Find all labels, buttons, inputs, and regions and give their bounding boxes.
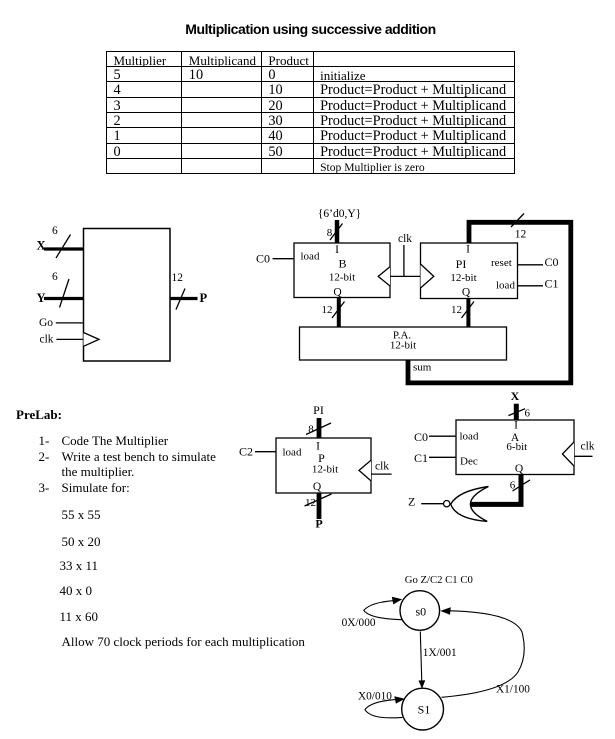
clock wedge B bbox=[378, 267, 390, 286]
svg-text:PI: PI bbox=[456, 257, 467, 271]
node Go Z/C2 C1 C0 label bbox=[405, 574, 473, 586]
svg-text:X0/010: X0/010 bbox=[358, 690, 392, 702]
svg-text:6: 6 bbox=[52, 225, 58, 237]
svg-text:C0: C0 bbox=[414, 430, 428, 444]
svg-text:load: load bbox=[460, 431, 479, 443]
svg-text:12-bit: 12-bit bbox=[450, 272, 476, 284]
svg-text:6: 6 bbox=[52, 271, 58, 283]
svg-text:clk: clk bbox=[398, 233, 412, 245]
svg-text:P: P bbox=[200, 291, 208, 305]
node clk label bbox=[40, 334, 54, 346]
bus slash B input bbox=[330, 224, 343, 241]
svg-text:0X/000: 0X/000 bbox=[342, 617, 376, 629]
node X0/010 label bbox=[358, 690, 392, 702]
bus width 12 label PI Q bbox=[451, 304, 462, 316]
wire s0 to S1 bbox=[419, 632, 426, 689]
wire A Q bus to NOR bbox=[468, 475, 521, 505]
svg-text:Q: Q bbox=[515, 463, 524, 475]
svg-text:sum: sum bbox=[413, 362, 432, 374]
bus slash B Q bbox=[332, 302, 345, 319]
bus slash Y bbox=[60, 279, 70, 308]
svg-text:load: load bbox=[496, 280, 515, 292]
block U1 multiplier top-level bbox=[84, 229, 171, 362]
wire clk stem bbox=[403, 245, 405, 276]
node 0X/000 label bbox=[342, 617, 376, 629]
svg-text:X: X bbox=[511, 389, 520, 403]
node C1 label (A Dec) bbox=[414, 451, 428, 465]
svg-text:load: load bbox=[283, 447, 302, 459]
wire reset to C0 bbox=[518, 264, 544, 266]
node C0 label (PI reset) bbox=[545, 255, 559, 269]
bus width 12 label P Q bbox=[305, 497, 316, 509]
wire C0 to A load bbox=[429, 435, 456, 437]
wire PI Q bus to adder bbox=[466, 299, 470, 328]
svg-text:6: 6 bbox=[525, 408, 531, 420]
bus width 6 label Y bbox=[52, 271, 58, 283]
wire P output bus bbox=[170, 297, 198, 300]
svg-text:C2: C2 bbox=[239, 445, 253, 459]
svg-text:1X/001: 1X/001 bbox=[423, 647, 457, 659]
svg-text:6: 6 bbox=[510, 480, 516, 492]
register A 6-bit bbox=[456, 420, 574, 476]
clock wedge PI bbox=[421, 264, 434, 288]
svg-text:Q: Q bbox=[313, 481, 322, 493]
svg-text:Q: Q bbox=[462, 287, 471, 299]
bus width 12 label P bbox=[172, 272, 184, 284]
wire Z output bbox=[421, 503, 443, 505]
bus width 6 label A Q bbox=[510, 480, 516, 492]
wire clk to A bbox=[574, 455, 593, 457]
node clk label (A) bbox=[581, 441, 595, 453]
node {6'd0,Y} label bbox=[318, 208, 361, 220]
svg-text:12: 12 bbox=[515, 229, 527, 241]
wire load to C1 bbox=[518, 285, 544, 287]
bus width 6 label A input bbox=[525, 408, 531, 420]
wire B input bus {6'd0,Y} bbox=[335, 220, 340, 243]
node X label (A input) bbox=[511, 389, 520, 403]
title bbox=[3, 22, 615, 37]
wire clk to P bbox=[371, 473, 392, 475]
svg-text:X1/100: X1/100 bbox=[496, 684, 530, 696]
table bbox=[106, 51, 515, 174]
wire B Q bus to adder bbox=[337, 298, 341, 328]
node sum label bbox=[413, 362, 432, 374]
svg-text:12-bit: 12-bit bbox=[390, 340, 416, 352]
node C0 label (A load) bbox=[414, 430, 428, 444]
wire C0 to B load bbox=[273, 258, 295, 260]
node PI label (P input) bbox=[313, 403, 324, 417]
bus slash P Q bbox=[305, 494, 332, 506]
bus slash P bbox=[176, 289, 185, 310]
svg-text:8: 8 bbox=[327, 227, 333, 239]
svg-text:load: load bbox=[301, 251, 320, 263]
clock wedge P bbox=[359, 460, 371, 481]
bus width 12 label feedback bbox=[515, 229, 527, 241]
node Z label bbox=[408, 495, 415, 509]
svg-text:I: I bbox=[335, 244, 339, 256]
bus width 8 label B input bbox=[327, 227, 333, 239]
node clk label (P) bbox=[375, 460, 389, 472]
svg-text:C1: C1 bbox=[414, 451, 428, 465]
svg-text:Go Z/C2 C1 C0: Go Z/C2 C1 C0 bbox=[405, 574, 473, 586]
node Go label bbox=[39, 317, 53, 329]
svg-text:C1: C1 bbox=[545, 277, 559, 291]
svg-text:Dec: Dec bbox=[460, 456, 478, 468]
prelab text bbox=[16, 408, 62, 421]
svg-text:S1: S1 bbox=[418, 702, 431, 716]
bus slash A Q bbox=[513, 480, 531, 491]
svg-text:12: 12 bbox=[322, 304, 333, 316]
node C0 label (B load) bbox=[256, 252, 270, 266]
svg-text:Go: Go bbox=[39, 317, 53, 329]
svg-text:reset: reset bbox=[491, 257, 512, 269]
register P 12-bit bbox=[276, 438, 371, 493]
svg-text:6-bit: 6-bit bbox=[506, 441, 527, 453]
svg-text:8: 8 bbox=[308, 424, 314, 436]
state S1 bbox=[402, 688, 444, 730]
svg-text:C0: C0 bbox=[545, 255, 559, 269]
wire Go bbox=[56, 322, 84, 324]
wire self-loop S1 bbox=[365, 696, 405, 718]
svg-text:12: 12 bbox=[305, 497, 316, 509]
svg-text:12: 12 bbox=[172, 272, 184, 284]
svg-text:clk: clk bbox=[581, 441, 595, 453]
clock wedge A bbox=[562, 442, 574, 466]
state s0 bbox=[400, 591, 440, 631]
bus slash A input bbox=[508, 409, 525, 416]
svg-text:{6’d0,Y}: {6’d0,Y} bbox=[318, 208, 361, 220]
svg-text:PI: PI bbox=[313, 403, 324, 417]
node P label bbox=[200, 291, 208, 305]
node C2 label bbox=[239, 445, 253, 459]
wire A input bus X bbox=[514, 404, 519, 420]
clock wedge U1 bbox=[84, 333, 100, 347]
svg-text:clk: clk bbox=[375, 460, 389, 472]
wire P input bus bbox=[317, 418, 322, 438]
bus slash P input bbox=[306, 423, 331, 435]
svg-text:s0: s0 bbox=[415, 604, 426, 618]
svg-text:C0: C0 bbox=[256, 252, 270, 266]
svg-text:P: P bbox=[315, 517, 322, 531]
register PI 12-bit bbox=[421, 243, 518, 299]
bus width 12 label B Q bbox=[322, 304, 333, 316]
svg-text:12-bit: 12-bit bbox=[329, 272, 355, 284]
svg-text:Y: Y bbox=[37, 291, 46, 305]
svg-text:I: I bbox=[514, 420, 518, 432]
wire C2 to P load bbox=[255, 451, 276, 453]
wire C1 to A Dec bbox=[429, 456, 456, 458]
wire clk horizontal bbox=[390, 275, 421, 277]
wire Y bus bbox=[44, 297, 84, 300]
bus width 8 label P input bbox=[308, 424, 314, 436]
wire P Q output bus bbox=[317, 493, 322, 519]
bus slash feedback bbox=[511, 214, 524, 228]
node Y label bbox=[37, 291, 46, 305]
bus width 6 label X bbox=[52, 225, 58, 237]
wire self-loop s0 bbox=[364, 597, 403, 620]
node P output label bbox=[315, 517, 322, 531]
bus slash PI Q bbox=[462, 302, 475, 319]
register B 12-bit bbox=[294, 243, 390, 299]
svg-text:B: B bbox=[338, 257, 346, 271]
svg-text:12-bit: 12-bit bbox=[312, 463, 338, 475]
wire S1 to s0 arc bbox=[440, 607, 524, 697]
wire sum feedback loop to PI input bbox=[408, 222, 571, 383]
wire clk bbox=[56, 338, 83, 340]
svg-text:Z: Z bbox=[408, 495, 415, 509]
svg-text:clk: clk bbox=[40, 334, 54, 346]
node clk label (B/PI) bbox=[398, 233, 412, 245]
svg-text:X: X bbox=[37, 239, 46, 253]
bubble NOR output bbox=[444, 501, 450, 507]
node C1 label (PI load) bbox=[545, 277, 559, 291]
gate NOR Z (mirrored) bbox=[451, 487, 489, 522]
adder P.A. 12-bit bbox=[300, 327, 507, 360]
bus slash X bbox=[56, 235, 71, 259]
node X label bbox=[37, 239, 46, 253]
node X1/100 label bbox=[496, 684, 530, 696]
svg-text:I: I bbox=[466, 244, 470, 256]
node 1X/001 label bbox=[423, 647, 457, 659]
wire X bus bbox=[44, 247, 84, 250]
svg-text:Q: Q bbox=[333, 287, 342, 299]
svg-text:12: 12 bbox=[451, 304, 462, 316]
